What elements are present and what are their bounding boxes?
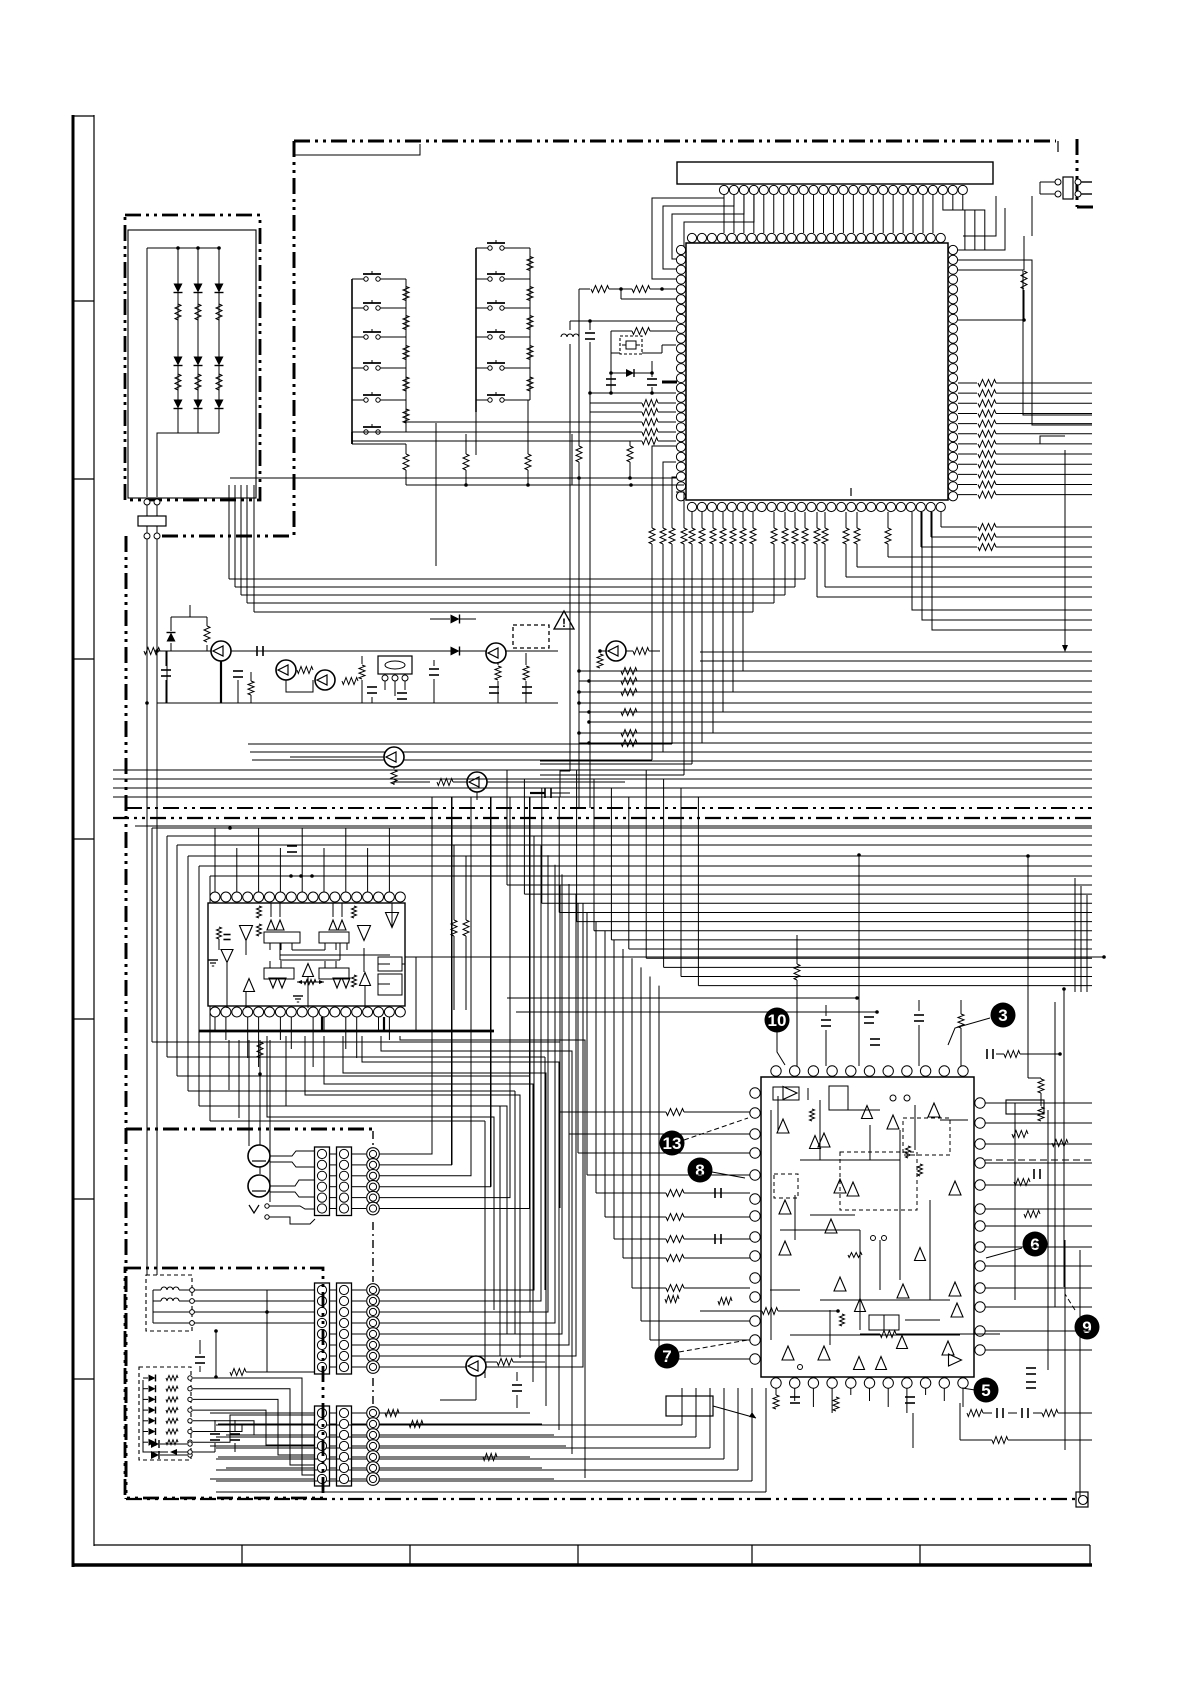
caps bottom [210, 1433, 220, 1435]
long vertical x570 with coil [569, 321, 571, 330]
callout 8 [688, 1158, 713, 1183]
wire IC bottom fan [845, 544, 847, 577]
IC U1 right pin circles [948, 245, 957, 254]
leader 8 [712, 1172, 745, 1178]
right staircase corners [1040, 436, 1065, 444]
IC U1 right top loop wires [958, 208, 1005, 250]
diode D1c [174, 400, 183, 409]
diode D11 [451, 615, 460, 624]
transistor Q8 [466, 1356, 486, 1376]
wire U2 box leg [324, 943, 326, 950]
LED rows [149, 1375, 156, 1382]
display board inner box [128, 230, 256, 498]
keys wire stub [351, 443, 353, 445]
wire y998 [507, 997, 857, 999]
wire routing C shape [188, 855, 1092, 857]
wire corner below IC right [912, 512, 1092, 610]
wire U2 box leg [291, 943, 293, 950]
resistor R1a [175, 304, 181, 320]
IC U3 internal amps [783, 1087, 797, 1100]
svg-text:5: 5 [981, 1381, 990, 1400]
frame fold tick [73, 1198, 94, 1200]
resistor R16 [523, 666, 529, 680]
resistors on CN4 lines [385, 1410, 399, 1417]
leader 10 [777, 1032, 785, 1065]
leader 7 [679, 1340, 748, 1352]
IC U2 internal op-amps row1 [240, 926, 253, 941]
resistor R2b [195, 374, 201, 390]
wire IC bottom fan [662, 544, 664, 752]
IC U1 top pin row circles [719, 185, 728, 194]
transistor Q1 [211, 641, 231, 661]
right side rect [1006, 1100, 1044, 1114]
IC U2 internal left parts [217, 927, 222, 939]
crystal X1 dashed box [620, 336, 642, 354]
cap C18 [522, 686, 532, 688]
wire pair down left side [146, 526, 148, 533]
cap on U2 top feed [287, 845, 297, 847]
keys2 switch S4 [476, 336, 488, 338]
board border dash-dot horizontal y536 [162, 535, 294, 538]
svg-text:10: 10 [768, 1011, 787, 1030]
wire y1012 [516, 1011, 877, 1013]
svg-text:3: 3 [998, 1006, 1007, 1025]
wire Q5 base [600, 650, 606, 652]
svg-text:!: ! [562, 616, 566, 630]
IC U1 bottom pin circles [687, 502, 696, 511]
thick stub to pin y382 [662, 381, 677, 384]
wire U3 left feed [640, 967, 642, 1321]
wire IC bottom fan [701, 544, 703, 743]
resistors right of U2 [451, 920, 457, 936]
IC U2 bottom pin wires [214, 1017, 216, 1031]
U2 right side wire y957 [405, 956, 1104, 958]
resistor columns x579 x630 [576, 446, 582, 462]
wire IC bottom fan [773, 544, 775, 603]
IC U3 internal wires [770, 1110, 772, 1340]
nested bus horizontal lines [507, 884, 1092, 886]
capacitor C10 [165, 651, 167, 666]
frame fold tick [73, 658, 94, 660]
keys1 switch S2 [352, 307, 364, 309]
transistor Q2 [276, 660, 296, 680]
keys2 switch S1 [476, 247, 488, 249]
wire exit of display box [157, 433, 178, 497]
wire IC bottom fan [742, 544, 744, 671]
keys ground bus [406, 484, 684, 486]
wire U3 left feed [568, 894, 570, 1134]
leader 5 [962, 1388, 975, 1390]
dash-dot mating line above CN2 [372, 1131, 374, 1146]
connector CN1 pads [144, 499, 150, 505]
dashed inductor box [146, 1275, 192, 1331]
components below right of U3 [1026, 1367, 1036, 1369]
wire U3 left feed [613, 940, 615, 1239]
IC left pin resistor wires [642, 400, 658, 407]
wire Q6-Q7 [394, 781, 430, 783]
IC U1 bottom pin wires and resistors [649, 528, 655, 544]
IC U3 dashed regions [840, 1152, 917, 1210]
IC U3 bottom pins [771, 1378, 781, 1388]
wire top stub [171, 616, 207, 618]
IC left pin wire y289 [579, 288, 590, 290]
CN4 left wires [210, 1412, 315, 1414]
cap C12 inline [256, 646, 258, 656]
IC U3 left pins [750, 1088, 760, 1098]
U3 right pin wires [985, 1102, 1092, 1104]
page frame left border [72, 115, 75, 1567]
bottom return bus [216, 1424, 682, 1426]
bottom frame thick line [73, 1563, 1092, 1567]
resistor R30 [230, 1369, 246, 1376]
IC U3 extra amps [862, 1106, 873, 1119]
connector CN2c [367, 1148, 380, 1161]
dashed wire right of U3 [985, 1159, 1092, 1161]
IC U2 thick bottom bus [199, 1030, 494, 1033]
keys2 resistor [527, 287, 533, 301]
keys2 left bus [475, 248, 477, 412]
components above U3 [794, 964, 800, 980]
keys2 switch S6 [476, 399, 488, 401]
transistor Q4 [486, 643, 506, 663]
keys2 resistor [527, 316, 533, 330]
connector CN1 body [138, 516, 166, 526]
board border dash-dot left lower vertical [125, 536, 128, 1499]
IC U2 internal arrow chain [297, 981, 324, 983]
wire IC bottom fan [752, 544, 754, 612]
wire U2 right box feeds [378, 963, 390, 965]
wire from bus up [571, 434, 573, 485]
wire U2 pin to amp [332, 903, 334, 917]
vertical wires to IC top [858, 855, 860, 1066]
bottom frame divider [751, 1545, 753, 1565]
CN4 right wires [379, 1412, 530, 1414]
cap C17 [489, 686, 499, 688]
RCA jack J2 [248, 1175, 270, 1197]
svg-text:7: 7 [662, 1347, 671, 1366]
right side resistors [1012, 1131, 1028, 1138]
wire chain x1028 [1027, 856, 1029, 1078]
IC U3 bottom row amps [782, 1346, 794, 1360]
wire and resistor group2 [665, 1296, 679, 1303]
junction wires [266, 1290, 268, 1372]
resistor R40 [497, 1359, 513, 1366]
connector CN4b [337, 1406, 352, 1486]
board border dash-dot top [294, 140, 1056, 143]
transistor Q7 [467, 772, 487, 792]
cap C14 [367, 686, 377, 688]
leader 9 [1065, 1294, 1075, 1310]
callout 5 [974, 1378, 999, 1403]
wire right vertical pair [958, 260, 1092, 425]
long vertical x579 lower [578, 462, 580, 808]
diode column 3 wire [218, 248, 220, 433]
keys1 switch S1 [352, 278, 364, 280]
wire U2 box leg [280, 943, 282, 950]
keys1 switch S5 [352, 399, 364, 401]
diode D2a [194, 284, 203, 293]
bus wires mid lower [579, 702, 1092, 704]
resistor R42 [880, 1331, 896, 1338]
wires bar left fanout to IC left pins [652, 195, 724, 279]
keys1 switch S3 [352, 336, 364, 338]
resistor R15 [497, 663, 499, 665]
junction dots [289, 874, 293, 878]
resistor R41 [762, 1308, 778, 1315]
LED common line with arrow [143, 1380, 168, 1452]
arrow feed line [1064, 450, 1066, 648]
diode column 2 wire [197, 248, 199, 433]
IC U3 small boxes [869, 1315, 884, 1330]
leader 3 [948, 1018, 990, 1045]
wire IC bottom fan [683, 544, 685, 775]
nested bus left verticals crossing separator [506, 770, 508, 885]
diode D1b [174, 357, 183, 366]
cap C13 [361, 656, 363, 664]
cap res pair right of U3 top [986, 1049, 988, 1059]
inductor box wires [153, 1289, 161, 1291]
diode D3b [215, 357, 224, 366]
wires inductor to CN3 [195, 1289, 315, 1291]
top right connector CN9 [1063, 177, 1073, 199]
IC right pin resistor lines [958, 382, 977, 384]
cap C19 [544, 788, 546, 798]
LED block right wires [193, 1378, 315, 1475]
connector CN2b [337, 1147, 352, 1216]
svg-text:6: 6 [1030, 1235, 1039, 1254]
keys1 left bus [351, 279, 353, 444]
CN2 right wires rising [379, 797, 432, 1154]
connector CN3b [337, 1283, 352, 1374]
RCA jack J1 [248, 1145, 270, 1167]
cap C15 [397, 692, 407, 694]
IC U2 body [208, 903, 405, 1006]
IC left pin wire y299 [621, 298, 676, 300]
dashed box jumper [513, 625, 549, 648]
wires IC bottom right pins going right [940, 512, 942, 527]
wire routing C shape [167, 835, 1092, 837]
separator dash-dot pair lower [113, 817, 1092, 819]
jack wires [270, 1151, 315, 1156]
connector CN3c [367, 1284, 380, 1297]
junction vertical x216 [215, 1331, 217, 1377]
keys1 resistor [403, 287, 409, 301]
keys1 resistor [403, 316, 409, 330]
risers fan line ends [228, 485, 230, 579]
frame fold tick [73, 1018, 94, 1020]
callout 9 [1075, 1315, 1100, 1340]
connector CN2a [315, 1147, 330, 1216]
resistor R19 [393, 767, 395, 769]
crystal X1 wire y331 [611, 330, 632, 332]
IC left pin wire y321 [570, 320, 676, 322]
wire IC bottom fan [722, 544, 724, 712]
IC U1 upper pin row circles [687, 233, 696, 242]
IC U3 small switch circles [871, 1236, 876, 1241]
vertical x590 with cap [589, 321, 591, 330]
frame fold tick [73, 1378, 94, 1380]
wire bracket below top border [295, 144, 420, 155]
CN4 bridge wires [329, 1412, 337, 1414]
resistor R11 [144, 648, 160, 655]
wire Q2-Q3 [286, 680, 313, 692]
keys1 switch S4 [352, 367, 364, 369]
wire Q8 [475, 1376, 477, 1400]
resistor below [992, 1437, 1008, 1444]
callout 10 [765, 1008, 790, 1033]
wire below U3 to resistor [912, 1413, 914, 1448]
resonator pins [382, 675, 388, 681]
cap C40 [512, 1384, 522, 1386]
frame fold tick [73, 838, 94, 840]
diode D2c [194, 400, 203, 409]
transistor Q3 [315, 670, 335, 690]
U3 bottom pin wires [775, 1388, 777, 1395]
connector CN4a [315, 1406, 330, 1486]
resistor R12 [248, 681, 254, 695]
connector CN4c [367, 1407, 380, 1420]
crystal ground rail y393 [590, 392, 676, 394]
inductor L2 [161, 1298, 179, 1301]
IC U3 top pins [771, 1066, 781, 1076]
power rail top [157, 650, 558, 652]
wire U3 left feed [559, 885, 561, 1112]
cap C16 [433, 660, 435, 666]
wire bus top of diode columns [157, 247, 219, 249]
wire resistor vertical right [1023, 236, 1025, 270]
frame fold tick [73, 300, 94, 302]
resistor R17 [633, 648, 649, 655]
wire U2 mid link [292, 949, 325, 951]
connector CN1 lower pads [144, 533, 150, 539]
CN2 bridge wires [329, 1153, 337, 1155]
diode D12 [451, 647, 460, 656]
IC U3 right pins [975, 1098, 985, 1108]
resistor R10 [206, 645, 208, 651]
keys2 switch S3 [476, 307, 488, 309]
bottom frame divider [409, 1545, 411, 1565]
wire IC bottom fan [651, 544, 653, 760]
keys1 resistor [403, 377, 409, 391]
vertical from nest to U3 [1063, 989, 1065, 1287]
wire bus bottom of diode columns [178, 432, 219, 434]
dash-dot mating line CN2-CN3 [372, 1222, 374, 1282]
board border dash-dot left vertical [293, 141, 296, 536]
wire U3 left feed [622, 949, 624, 1258]
keys1 right bus [405, 279, 407, 432]
right verticals descending to U3 area [1074, 878, 1076, 992]
wire U3 left feed [595, 922, 597, 1193]
long vertical x579 [578, 289, 580, 446]
resonator X2 box [378, 656, 412, 674]
wire U2 pin to amp [270, 903, 272, 917]
leader 13 [684, 1118, 748, 1140]
diode D3a [215, 284, 224, 293]
bottom frame divider [919, 1545, 921, 1565]
wire routing C shape [199, 865, 1092, 867]
wire IC bottom fan [794, 544, 796, 587]
wire IC bottom fan [712, 544, 714, 733]
resistor R1b [175, 374, 181, 390]
wire U3 left feed [631, 958, 633, 1288]
diode column 1 wire [177, 248, 179, 433]
keys2 resistor [527, 377, 533, 391]
bus wire below separator [135, 825, 1092, 827]
keys group2 bottom wire [475, 400, 477, 455]
wire U3 left feed [586, 912, 588, 1175]
label box [666, 1396, 713, 1416]
wire IC bottom fan [856, 544, 858, 567]
resistor R18 [597, 654, 603, 668]
wire IC bottom fan [691, 544, 693, 764]
resistor R14 [342, 678, 358, 685]
phone jack J3 [249, 1205, 259, 1213]
wire U2 box leg [335, 943, 337, 950]
diode D2b [194, 357, 203, 366]
wire U2 lower legs [269, 961, 271, 968]
big IC U1 body [686, 243, 948, 500]
callout 13 [660, 1131, 685, 1156]
svg-text:8: 8 [695, 1161, 704, 1180]
diode D10 [170, 643, 172, 651]
CN3 bridge wires [329, 1289, 337, 1291]
crystal caps C2 C3 [611, 372, 652, 374]
U2 lower fan wires [228, 1040, 230, 1090]
bottom frame right edge [1089, 1545, 1091, 1565]
bottom frame divider [577, 1545, 579, 1565]
resistor R3b [216, 374, 222, 390]
IC U3 body [761, 1077, 974, 1377]
keys1 switch S6 [352, 431, 364, 433]
wire U3 left feed [658, 986, 660, 1359]
wire U3 left feed [649, 977, 651, 1341]
board border dash-dot right corner [1076, 139, 1079, 207]
frame fold tick [73, 478, 94, 480]
callout 7 [655, 1344, 680, 1369]
IC left pin wire y478 [230, 477, 676, 479]
inductor box pads [190, 1288, 195, 1293]
inductor L1 [161, 1287, 179, 1290]
caps on left feeds [714, 1188, 716, 1198]
capacitor C11 [237, 680, 239, 703]
IC U2 top pins [210, 892, 220, 902]
separator dash-dot pair upper [126, 807, 1092, 809]
top connector bar [677, 162, 993, 184]
LED block diodes [151, 1440, 159, 1448]
IC U2 bottom pins [210, 1007, 220, 1017]
CN9 wires [1040, 181, 1055, 183]
keys1 resistor [403, 409, 409, 423]
dash-dot mating line CN3-CN4 [372, 1378, 374, 1404]
CN3 right wires rising [379, 836, 534, 1290]
terminal symbol at dash-dot end [1076, 1492, 1088, 1507]
wire U2 pin to amp [341, 903, 343, 917]
wire IC bottom fan [732, 544, 734, 692]
resistor R3a [216, 304, 222, 320]
bus wires middle group with resistors [579, 670, 1092, 672]
wire IC bottom fan [804, 544, 806, 579]
power rail bottom [157, 702, 558, 704]
IC U3 internal resistors [810, 1109, 815, 1121]
wire lower row [290, 756, 385, 758]
wire IC bottom fan [887, 544, 889, 557]
right vertical wires near U3 [1014, 1103, 1016, 1300]
resistor R13 [297, 667, 313, 674]
IC U1 pin1 mark [850, 488, 852, 496]
wire IC bottom fan [824, 544, 826, 587]
keys2 switch S2 [476, 278, 488, 280]
CN3 left wires [193, 1289, 315, 1291]
